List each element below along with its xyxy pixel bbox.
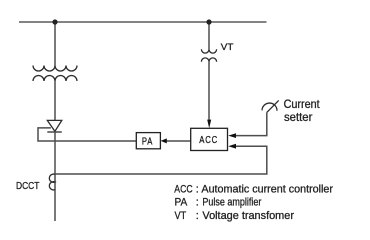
svg-text:PA: PA bbox=[175, 197, 188, 209]
svg-text:ACC: ACC bbox=[174, 183, 192, 195]
svg-text:setter: setter bbox=[284, 110, 312, 124]
svg-text:VT: VT bbox=[175, 210, 187, 222]
svg-text:PA: PA bbox=[142, 136, 153, 147]
svg-text:Voltage transfomer: Voltage transfomer bbox=[202, 210, 294, 222]
svg-text::: : bbox=[196, 197, 199, 209]
svg-text:Pulse amplifier: Pulse amplifier bbox=[202, 197, 261, 209]
svg-text:DCCT: DCCT bbox=[16, 181, 40, 192]
svg-text::: : bbox=[196, 210, 199, 222]
svg-text:Automatic current controller: Automatic current controller bbox=[201, 183, 333, 195]
svg-text:VT: VT bbox=[221, 42, 234, 53]
svg-text::: : bbox=[196, 183, 199, 195]
svg-text:ACC: ACC bbox=[199, 135, 218, 146]
